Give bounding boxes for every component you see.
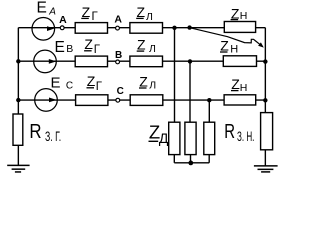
node dropper A row A — [172, 26, 176, 30]
svg-text:Д: Д — [159, 130, 169, 146]
resistor Z_N phase C — [224, 95, 256, 105]
node right bus row B — [263, 59, 267, 63]
resistor Z_G phase B — [75, 56, 107, 67]
node terminal B — [116, 60, 120, 64]
svg-text:Г: Г — [92, 11, 99, 23]
wire RZG to ground — [17, 146, 19, 166]
wire RZN to ground — [264, 150, 266, 166]
svg-text:E: E — [51, 75, 61, 92]
svg-text:Л: Л — [149, 43, 156, 55]
EMF source E_C — [35, 89, 58, 112]
svg-text:Г: Г — [96, 81, 103, 93]
node terminal A1 — [60, 26, 64, 30]
wire dropper phase C — [208, 100, 210, 122]
resistor Z_L phase A — [130, 23, 163, 34]
svg-text:Н: Н — [240, 82, 248, 94]
EMF source E_A — [32, 18, 55, 41]
resistor Zd 1 — [169, 122, 180, 154]
node terminal A2 — [116, 26, 120, 30]
svg-text:Н: Н — [230, 44, 238, 56]
svg-text:Л: Л — [149, 80, 156, 92]
svg-text:Z: Z — [87, 73, 96, 89]
node fault tap row A — [187, 25, 191, 29]
svg-text:А: А — [59, 14, 67, 26]
svg-text:R: R — [224, 120, 235, 143]
resistor Z_N phase A — [224, 22, 255, 33]
wire Zd stub 2 — [190, 155, 192, 163]
wire Zd stub 3 — [208, 155, 210, 163]
resistor Z_L phase C — [130, 95, 163, 106]
fault arrow (short circuit indicator) — [190, 28, 261, 46]
svg-text:Z: Z — [137, 4, 146, 20]
svg-text:А: А — [48, 7, 56, 18]
svg-text:Л: Л — [146, 11, 153, 23]
svg-text:Z: Z — [220, 38, 229, 54]
svg-text:Z: Z — [137, 37, 146, 53]
EMF source E_B — [34, 50, 57, 73]
ground right — [254, 166, 278, 172]
svg-text:E: E — [55, 39, 65, 56]
wire Zd star bus — [174, 162, 209, 164]
node right bus row C — [263, 98, 267, 102]
svg-text:З. Г.: З. Г. — [45, 128, 61, 144]
resistor R_ZG — [13, 114, 23, 145]
resistor Z_N phase B — [223, 56, 256, 67]
svg-text:Z: Z — [139, 74, 148, 90]
wire row A — [18, 27, 265, 29]
svg-text:В: В — [115, 50, 122, 61]
node left bus row C — [16, 98, 20, 102]
wire right neutral bus — [264, 28, 266, 113]
resistor Z_G phase C — [76, 95, 108, 106]
wire dropper phase B — [189, 61, 191, 122]
node Zd star point — [188, 161, 193, 166]
node left bus row B — [16, 59, 20, 63]
svg-text:А: А — [114, 14, 122, 26]
svg-text:С: С — [66, 80, 73, 91]
svg-text:Z: Z — [84, 36, 93, 52]
resistor Z_G phase A — [75, 23, 107, 34]
ground left — [7, 165, 29, 172]
svg-text:С: С — [117, 86, 124, 97]
wire row C — [18, 99, 265, 101]
resistor Z_L phase B — [130, 56, 163, 67]
svg-text:В: В — [66, 43, 73, 55]
svg-text:E: E — [37, 0, 47, 17]
resistor Zd 3 — [204, 122, 215, 154]
svg-text:Z: Z — [82, 4, 91, 20]
wire row B — [18, 60, 265, 62]
wire left neutral bus — [17, 28, 19, 114]
resistor Zd 2 — [185, 122, 196, 154]
resistor R_ZN — [261, 113, 273, 150]
svg-text:Н: Н — [240, 10, 248, 22]
svg-text:R: R — [29, 120, 41, 143]
wire dropper phase A — [174, 28, 176, 122]
svg-text:Z: Z — [231, 5, 240, 21]
node dropper C row C — [207, 98, 211, 102]
svg-text:Г: Г — [94, 44, 101, 56]
svg-text:З. Н.: З. Н. — [237, 129, 254, 144]
wire Zd stub 1 — [173, 155, 175, 163]
node terminal C — [116, 98, 120, 102]
node dropper B row B — [188, 59, 192, 63]
